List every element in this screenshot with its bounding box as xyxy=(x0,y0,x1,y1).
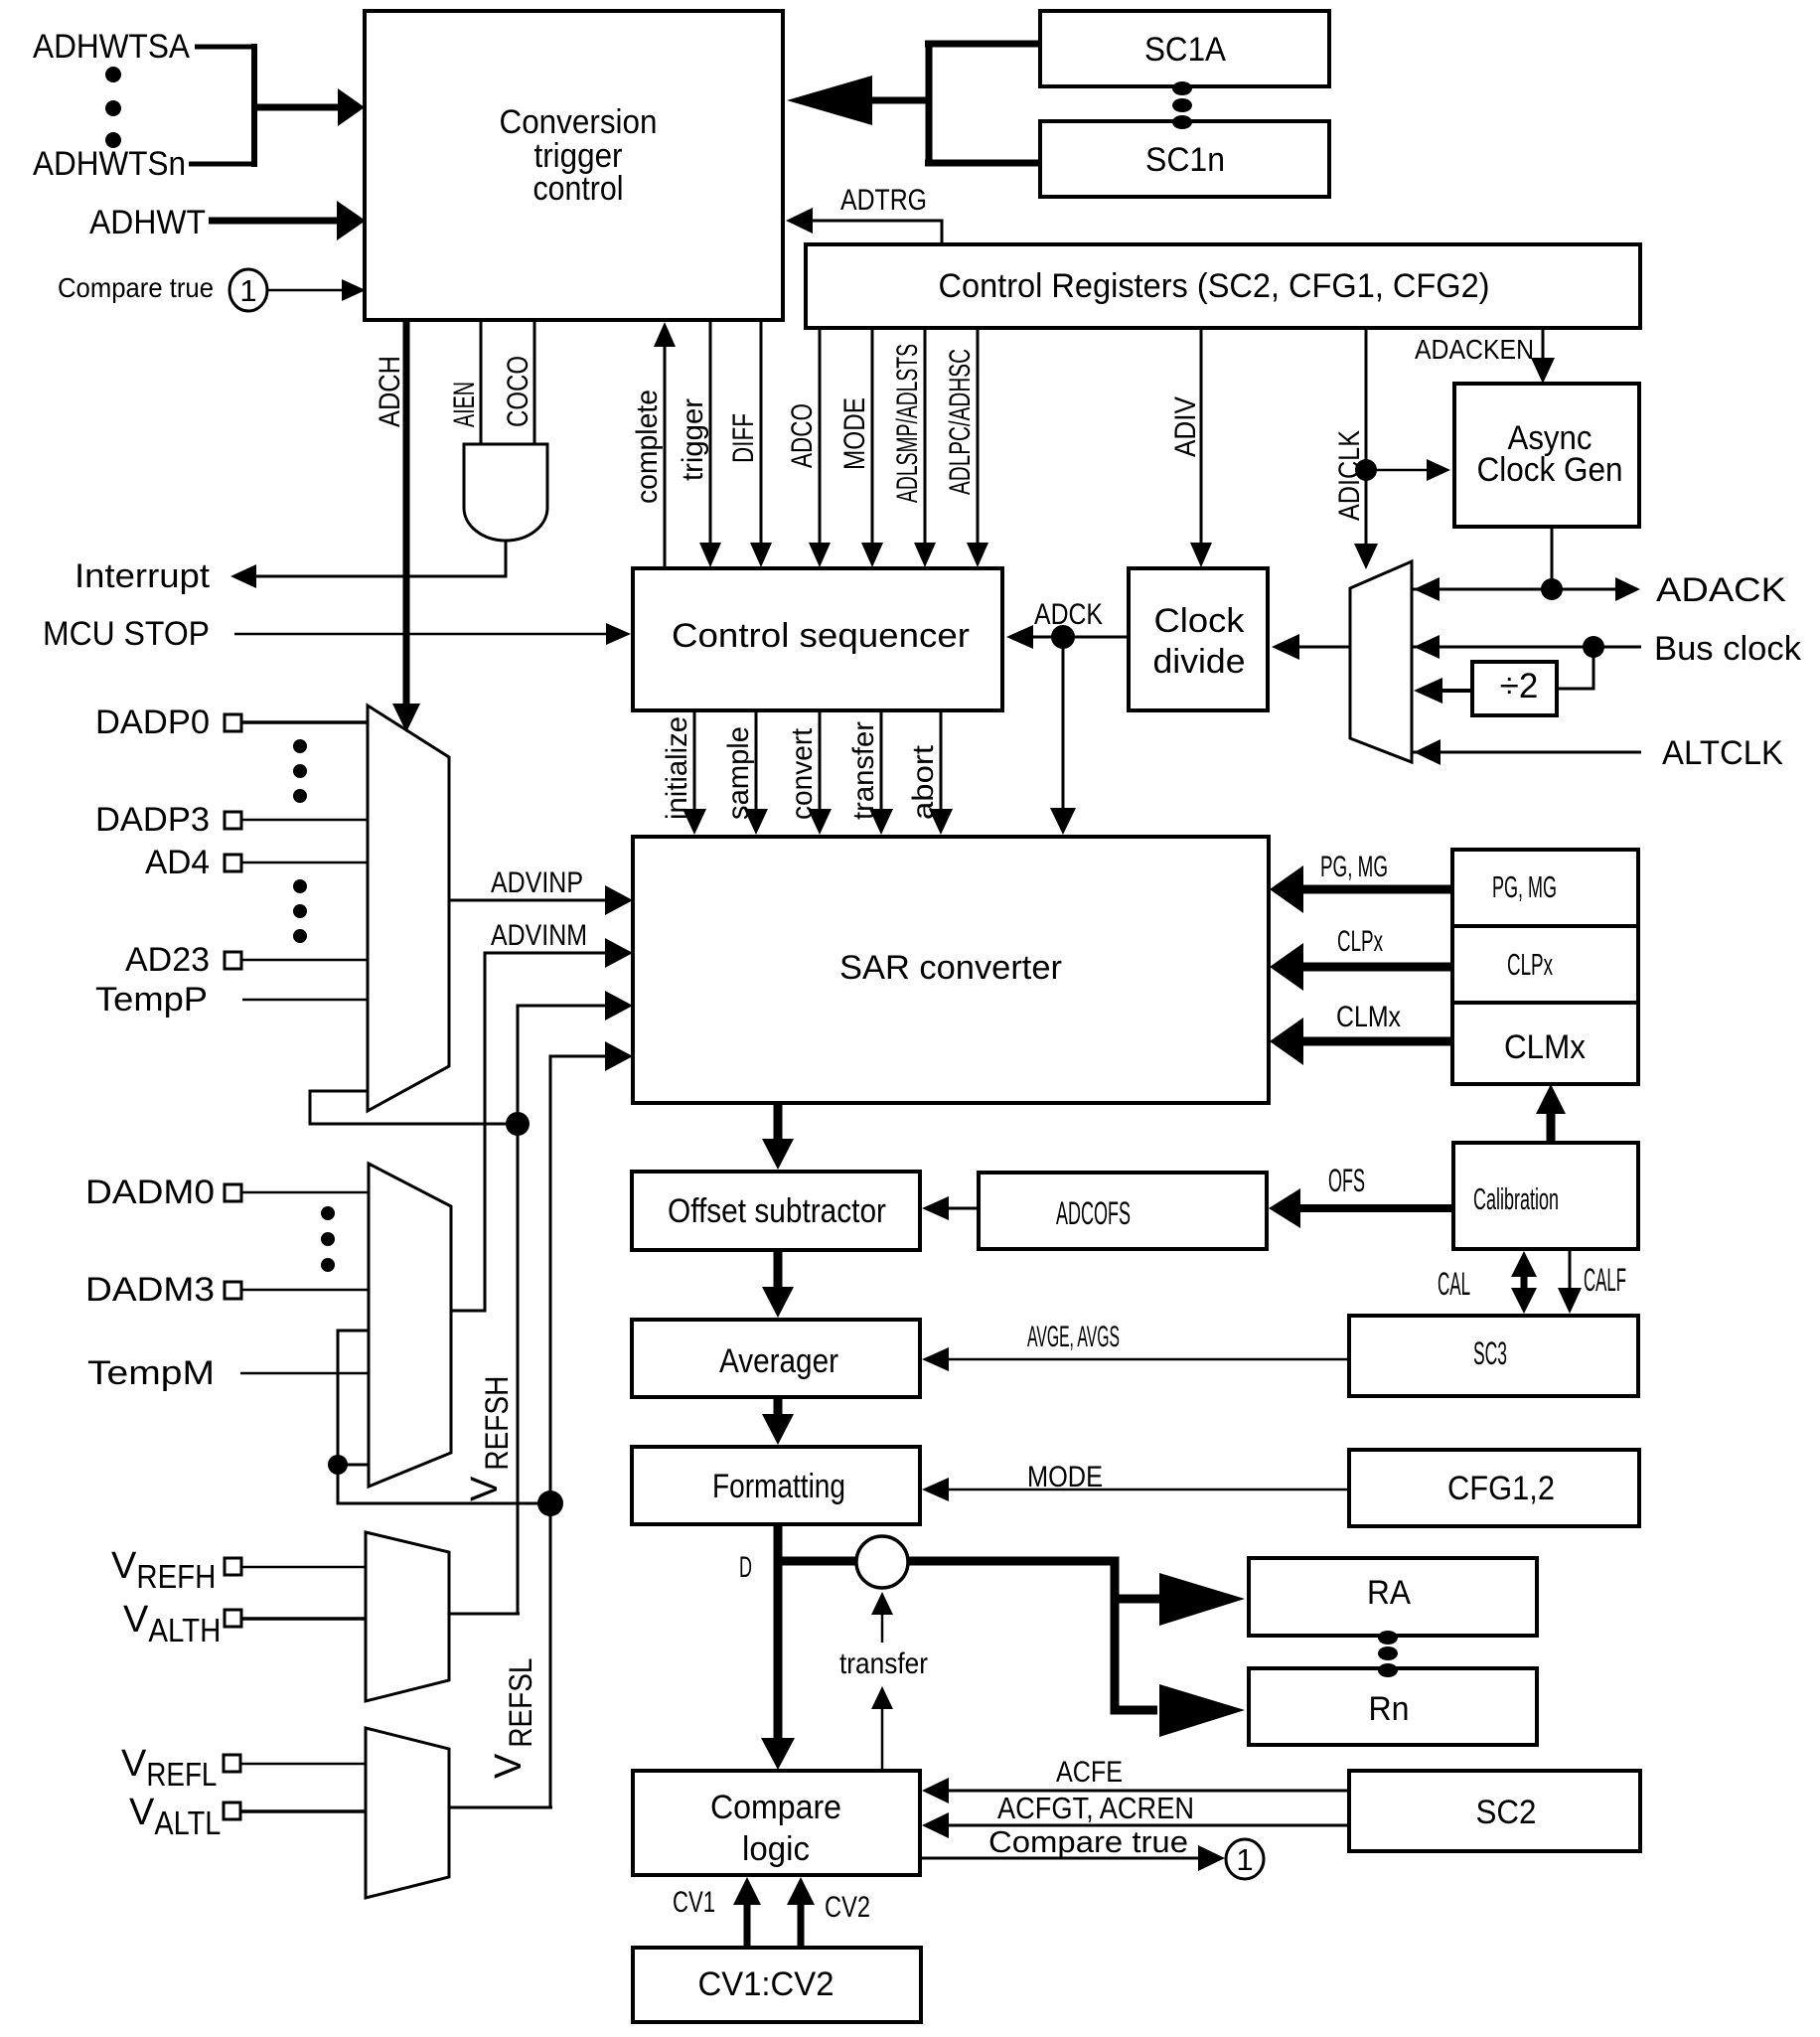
register stack PG,MG xyxy=(1452,850,1638,1084)
mux M1 analog input plus xyxy=(368,705,449,1111)
register SC1A xyxy=(1040,11,1329,86)
node ADCK junction xyxy=(1051,625,1075,649)
register CFG1,2 xyxy=(1349,1450,1639,1526)
wire SC1 bus arrow into trigger control xyxy=(869,97,932,104)
wire ADACKEN xyxy=(1542,328,1545,369)
wire ADHWTS trunk vertical xyxy=(251,44,257,167)
wire ADVINM xyxy=(451,953,614,1311)
svg-text:Compare: Compare xyxy=(710,1789,841,1826)
register ADCOFS xyxy=(979,1173,1267,1249)
wire TempM xyxy=(240,1372,369,1375)
svg-text:AIEN: AIEN xyxy=(448,382,481,427)
wire mux M1 Vrefsh stub xyxy=(310,1091,513,1124)
register SC1n xyxy=(1040,121,1329,197)
wire CV2 xyxy=(798,1900,805,1948)
svg-text:÷2: ÷2 xyxy=(1500,667,1539,705)
block: Clock divide xyxy=(1129,568,1268,710)
svg-text:Formatting: Formatting xyxy=(712,1468,845,1505)
wire Calibration to CLMx xyxy=(1547,1105,1556,1143)
svg-text:PG, MG: PG, MG xyxy=(1492,869,1557,904)
svg-text:CV1: CV1 xyxy=(673,1886,715,1919)
svg-text:MODE: MODE xyxy=(838,397,871,470)
wire ADCO xyxy=(819,328,822,552)
wire Compare true output xyxy=(920,1857,1204,1860)
block: Async Clock Gen xyxy=(1454,384,1639,527)
wire ADCK down to SAR xyxy=(1062,637,1065,819)
svg-text:AVGE, AVGS: AVGE, AVGS xyxy=(1027,1321,1120,1353)
dots RA..Rn ellipsis xyxy=(1378,1631,1398,1645)
svg-text:CV1:CV2: CV1:CV2 xyxy=(698,1965,834,2003)
svg-text:Calibration: Calibration xyxy=(1473,1181,1559,1216)
wire AND gate output to interrupt xyxy=(234,540,506,576)
svg-text:control: control xyxy=(533,170,624,208)
wire mux M4 output Vrefsl xyxy=(449,1806,552,1809)
svg-text:SC1n: SC1n xyxy=(1145,141,1225,179)
svg-text:MCU STOP: MCU STOP xyxy=(43,615,210,653)
svg-text:CFG1,2: CFG1,2 xyxy=(1447,1470,1555,1507)
svg-text:ADVINM: ADVINM xyxy=(491,919,587,952)
wire PG,MG bus xyxy=(1293,885,1452,894)
wire ADVINP xyxy=(449,899,614,902)
wire ADHWTS branch into trigger control xyxy=(254,104,340,111)
svg-text:Offset subtractor: Offset subtractor xyxy=(668,1192,886,1230)
wire SAR to Offset subtractor xyxy=(774,1103,783,1143)
svg-text:PG, MG: PG, MG xyxy=(1320,851,1388,883)
node 1 circle (compare true output) xyxy=(1226,1839,1264,1879)
wire sample xyxy=(755,710,758,819)
wire ADTRG xyxy=(793,221,942,244)
wire ADACK xyxy=(1412,588,1619,591)
svg-text:OFS: OFS xyxy=(1328,1163,1365,1198)
svg-text:ADCK: ADCK xyxy=(1034,598,1103,631)
svg-text:CAL: CAL xyxy=(1438,1266,1470,1302)
svg-text:SC1A: SC1A xyxy=(1144,31,1226,69)
svg-text:ADHWTSA: ADHWTSA xyxy=(33,28,190,66)
register CV1:CV2 xyxy=(633,1948,921,2022)
svg-text:logic: logic xyxy=(742,1830,810,1868)
svg-text:AD4: AD4 xyxy=(145,844,210,881)
svg-text:Interrupt: Interrupt xyxy=(75,557,211,595)
wire clock mux output to clock divide xyxy=(1287,646,1350,649)
svg-text:ADLPC/ADHSC: ADLPC/ADHSC xyxy=(944,349,977,495)
svg-text:initialize: initialize xyxy=(661,716,693,820)
wire initialize xyxy=(693,710,696,819)
svg-text:sample: sample xyxy=(722,726,755,820)
svg-text:ADCH: ADCH xyxy=(374,356,406,427)
wire ADICLK vertical xyxy=(1365,328,1368,554)
svg-text:ADIV: ADIV xyxy=(1169,396,1202,457)
wire VREFL xyxy=(240,1763,366,1766)
mux M4 Vrefsl select xyxy=(366,1728,449,1898)
svg-text:ACFGT, ACREN: ACFGT, ACREN xyxy=(997,1791,1194,1825)
svg-text:DIFF: DIFF xyxy=(727,413,760,463)
svg-text:transfer: transfer xyxy=(839,1647,928,1680)
block: SAR converter xyxy=(633,837,1269,1103)
svg-text:abort: abort xyxy=(907,744,940,820)
wire SC1n to trunk xyxy=(925,160,1040,167)
svg-text:SC3: SC3 xyxy=(1473,1335,1507,1371)
node 1 circle (compare true input) xyxy=(229,269,267,311)
wire bus clock to divide-by-2 xyxy=(1557,647,1593,689)
wire result bus to RA/Rn xyxy=(908,1561,1157,1710)
svg-text:Averager: Averager xyxy=(719,1342,838,1380)
wire ADHWTSA lead xyxy=(195,45,257,50)
svg-text:MODE: MODE xyxy=(1027,1461,1103,1493)
wire ADHWT xyxy=(209,218,338,225)
wire COCO xyxy=(533,320,536,444)
svg-text:ADVINP: ADVINP xyxy=(491,866,583,899)
wire Bus clock xyxy=(1412,646,1641,649)
wire divide-by-2 to mux xyxy=(1431,689,1472,693)
svg-text:ADLSMP/ADLSTS: ADLSMP/ADLSTS xyxy=(891,344,924,503)
wire abort xyxy=(940,710,943,819)
wire async clock gen output xyxy=(1551,527,1554,589)
dots ADHWTS ellipsis xyxy=(105,67,121,82)
wire transfer arrow lower xyxy=(881,1701,884,1771)
wire VALTL xyxy=(240,1809,366,1813)
svg-text:Clock Gen: Clock Gen xyxy=(1477,451,1623,489)
wire CALF xyxy=(1569,1249,1572,1294)
svg-text:CLMx: CLMx xyxy=(1336,1001,1401,1033)
wire ADICLK to async clock gen xyxy=(1366,469,1435,472)
svg-text:RA: RA xyxy=(1367,1574,1411,1612)
wire stub to mux M2 lower input xyxy=(338,1464,369,1467)
dots DADM ellipsis xyxy=(321,1206,335,1220)
wire AD4 xyxy=(241,862,368,864)
svg-text:CLPx: CLPx xyxy=(1507,947,1553,982)
arrow into Rn xyxy=(1159,1684,1245,1737)
wire CLPx bus xyxy=(1293,963,1452,972)
mux M5 clock select xyxy=(1350,561,1412,762)
svg-text:COCO: COCO xyxy=(502,356,534,427)
svg-text:Compare true: Compare true xyxy=(988,1824,1188,1859)
svg-text:SC2: SC2 xyxy=(1476,1794,1537,1831)
svg-text:CV2: CV2 xyxy=(825,1891,870,1924)
wire SC1A to trunk xyxy=(925,41,1040,48)
svg-text:ADCOFS: ADCOFS xyxy=(1056,1195,1131,1231)
wire DADP3 xyxy=(241,819,368,822)
wire convert xyxy=(819,710,822,819)
wire VALTH xyxy=(241,1617,366,1621)
svg-text:CALF: CALF xyxy=(1584,1262,1626,1298)
wire DIFF xyxy=(760,320,763,552)
wire Averager to Formatting xyxy=(774,1397,783,1418)
svg-text:DADP0: DADP0 xyxy=(95,704,210,741)
wire SC1 trunk vertical xyxy=(926,41,933,166)
dots DADP ellipsis xyxy=(293,739,307,753)
svg-text:ADICLK: ADICLK xyxy=(1333,430,1366,521)
wire mux M3 output Vrefsh xyxy=(449,1613,520,1616)
node ADICLK junction xyxy=(1355,459,1377,481)
node stub junction at mux M2 xyxy=(328,1455,348,1475)
wire MCU STOP xyxy=(234,633,608,636)
block: Compare logic xyxy=(633,1771,920,1875)
wire ADIV xyxy=(1200,328,1203,552)
svg-text:divide: divide xyxy=(1153,643,1246,681)
block: Offset subtractor xyxy=(632,1172,920,1250)
svg-text:convert: convert xyxy=(786,727,819,820)
svg-text:D: D xyxy=(739,1551,752,1584)
svg-text:ADHWTSn: ADHWTSn xyxy=(33,145,186,183)
register SC3 xyxy=(1349,1316,1638,1396)
svg-text:Bus clock: Bus clock xyxy=(1654,630,1802,668)
wire compare true into trigger control xyxy=(267,289,346,292)
wire transfer arrow upper xyxy=(881,1602,884,1643)
wire D to transfer circle xyxy=(778,1557,858,1566)
block: Calibration xyxy=(1453,1143,1638,1249)
wire MODE (CFG) xyxy=(944,1489,1349,1491)
svg-text:complete: complete xyxy=(631,390,664,504)
wire D result bus down xyxy=(774,1524,783,1742)
register Rn xyxy=(1249,1668,1537,1745)
wire AD23 xyxy=(241,959,368,962)
wire TempP xyxy=(242,999,368,1002)
svg-text:Control Registers (SC2, CFG1,: Control Registers (SC2, CFG1, CFG2) xyxy=(939,267,1490,305)
svg-text:ALTCLK: ALTCLK xyxy=(1662,734,1783,772)
wire ADCOFS to Offset subtractor xyxy=(944,1207,979,1210)
svg-text:AD23: AD23 xyxy=(125,941,210,979)
wire DADM0 xyxy=(241,1191,369,1194)
svg-text:SAR converter: SAR converter xyxy=(839,949,1062,987)
wire VREFH xyxy=(241,1566,366,1569)
wire CAL bidirectional xyxy=(1521,1264,1528,1300)
wire CV1 xyxy=(744,1900,751,1948)
node ADACK junction xyxy=(1541,578,1563,600)
wire branch to RA xyxy=(1115,1595,1159,1604)
svg-text:Rn: Rn xyxy=(1369,1690,1410,1728)
arrow into RA xyxy=(1159,1573,1245,1626)
wire ACFE xyxy=(944,1790,1349,1793)
wire MODE xyxy=(871,328,874,552)
svg-text:ACFE: ACFE xyxy=(1056,1756,1123,1789)
svg-text:ADHWT: ADHWT xyxy=(89,204,206,241)
wire DADM3 xyxy=(241,1289,369,1292)
wire VREFSH to SAR xyxy=(518,1006,614,1614)
svg-text:TempP: TempP xyxy=(95,981,208,1018)
wire complete (up into trigger control) xyxy=(664,338,667,568)
wire ADLPC/ADHSC xyxy=(977,328,980,552)
svg-text:DADM3: DADM3 xyxy=(85,1271,215,1309)
svg-text:1: 1 xyxy=(239,273,256,308)
svg-text:transfer: transfer xyxy=(847,721,880,820)
svg-text:ADCO: ADCO xyxy=(786,403,819,468)
block: Conversion trigger control xyxy=(365,11,783,320)
svg-text:TempM: TempM xyxy=(87,1354,215,1392)
node Bus clock junction xyxy=(1583,636,1604,658)
dots AD ellipsis xyxy=(293,879,307,893)
wire ALTCLK xyxy=(1412,751,1641,754)
svg-text:CLMx: CLMx xyxy=(1504,1028,1586,1066)
wire CLMx bus xyxy=(1293,1037,1452,1046)
svg-text:1: 1 xyxy=(1236,1842,1253,1877)
svg-text:DADP3: DADP3 xyxy=(95,801,210,839)
svg-text:ADTRG: ADTRG xyxy=(840,184,927,217)
wire ADLSMP/ADLSTS xyxy=(924,328,927,552)
node transfer gate circle xyxy=(856,1536,908,1588)
node Vrefsh junction at mux M1 xyxy=(506,1112,530,1136)
dots SC1 ellipsis xyxy=(1172,81,1192,95)
block: divide-by-2 xyxy=(1472,662,1557,715)
node Vrefsl junction xyxy=(537,1490,563,1516)
mux M2 analog input minus xyxy=(369,1164,451,1487)
svg-text:DADM0: DADM0 xyxy=(85,1174,215,1211)
wire ADCH xyxy=(403,320,410,709)
mux M3 Vrefsh select xyxy=(366,1532,449,1701)
wire DADP0 xyxy=(241,720,368,724)
wire ACFGT, ACREN xyxy=(944,1824,1349,1827)
register SC2 xyxy=(1349,1771,1640,1851)
wire VREFSL to SAR xyxy=(550,1056,614,1807)
svg-text:Conversion: Conversion xyxy=(500,103,658,141)
register RA xyxy=(1249,1558,1537,1636)
AND gate U1 (AIEN & COCO) xyxy=(464,444,547,541)
svg-text:ADACK: ADACK xyxy=(1656,571,1786,609)
svg-text:Clock: Clock xyxy=(1154,602,1246,640)
wire trigger xyxy=(709,320,712,552)
block: Formatting xyxy=(632,1447,920,1524)
wire Offset subtractor to Averager xyxy=(774,1250,783,1291)
wire OFS xyxy=(1295,1204,1453,1212)
wire AVGE, AVGS xyxy=(944,1358,1349,1361)
svg-text:ADACKEN: ADACKEN xyxy=(1415,334,1534,365)
svg-text:Compare true: Compare true xyxy=(58,272,214,303)
wire ADHWTSn lead xyxy=(189,162,257,167)
block: Averager xyxy=(632,1320,920,1397)
wire AIEN xyxy=(480,320,483,444)
svg-text:CLPx: CLPx xyxy=(1337,925,1383,958)
block: Control sequencer xyxy=(633,568,1002,710)
wire ADCK xyxy=(1023,636,1129,639)
svg-text:Control sequencer: Control sequencer xyxy=(672,617,970,655)
svg-text:trigger: trigger xyxy=(677,398,709,481)
block: Control Registers (SC2, CFG1, CFG2) xyxy=(806,244,1640,328)
wire transfer (sequencer) xyxy=(880,710,883,819)
wire mux M2 Vrefsl stub xyxy=(338,1331,544,1503)
